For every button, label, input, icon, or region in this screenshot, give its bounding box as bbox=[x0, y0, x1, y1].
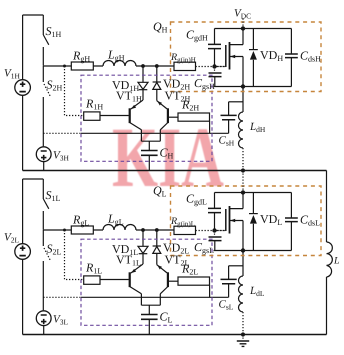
voltage source V1H bbox=[15, 80, 31, 96]
wire drain top link bbox=[215, 28, 292, 30]
wire R2 drop to rail bbox=[209, 121, 211, 133]
node dot mid rail bbox=[241, 168, 245, 172]
transistor VT1L bbox=[130, 264, 143, 305]
wire negative bias rail bbox=[43, 132, 81, 134]
wire top rail L half bbox=[23, 178, 44, 180]
wire V source top lead bbox=[22, 179, 24, 244]
wire base lead VT1 bbox=[100, 115, 129, 117]
inductor LgL bbox=[103, 225, 136, 230]
wire source bottom link bbox=[214, 86, 292, 88]
wire source rail stub bbox=[242, 57, 244, 87]
resistor Rg(in)H bbox=[174, 62, 196, 70]
wire dotted to gate bbox=[196, 66, 226, 68]
capacitor CdsL bbox=[285, 193, 298, 251]
wire negative bias rail bbox=[43, 296, 81, 298]
MOSFET QL symbol bbox=[215, 206, 244, 234]
wire driver output bar bbox=[141, 304, 160, 306]
MOSFET QH symbol bbox=[215, 42, 244, 70]
node VDC supply stub bbox=[242, 19, 244, 29]
capacitor CH bbox=[141, 141, 158, 170]
resistor R2H bbox=[178, 113, 210, 121]
switch S1H bbox=[43, 15, 49, 66]
driver IC dashed box (purple) bbox=[81, 75, 212, 161]
wire source rail stub bbox=[242, 221, 244, 251]
transistor VT1H bbox=[130, 100, 143, 141]
diode VD2H bbox=[153, 66, 161, 101]
wire V3 bottom lead bbox=[43, 326, 45, 335]
wire base lead VT1 bbox=[100, 279, 129, 281]
resistor R1H bbox=[84, 112, 100, 120]
wire bottom rail bbox=[23, 170, 327, 172]
transistor VT2L bbox=[157, 265, 178, 306]
transistor VT2H bbox=[157, 101, 178, 142]
switch S2H bbox=[43, 66, 50, 146]
voltage source V3H bbox=[36, 147, 51, 162]
capacitor CgsL bbox=[209, 231, 222, 251]
wire dotted feed to R1L bbox=[65, 230, 84, 280]
switch S1L bbox=[43, 179, 49, 230]
node dots bbox=[141, 64, 145, 68]
driver IC dashed box (purple) bbox=[81, 239, 212, 325]
voltage source V2L bbox=[15, 244, 31, 260]
wire gate drive row bbox=[43, 229, 174, 231]
wire rail below Ld dotted bbox=[242, 312, 244, 335]
wire right rail bbox=[326, 171, 328, 335]
inductor L load bbox=[327, 242, 333, 277]
capacitor CdsH bbox=[285, 29, 298, 87]
wire V source top lead bbox=[22, 15, 24, 80]
wire left rail down bbox=[22, 95, 24, 170]
wire rail above Ldh bbox=[242, 87, 244, 113]
resistor R2L bbox=[178, 277, 210, 285]
inductor LdL bbox=[239, 276, 244, 312]
wire R2 drop to rail bbox=[209, 285, 211, 297]
inductor LgH bbox=[103, 61, 136, 67]
resistor Rg(in)L bbox=[174, 226, 196, 234]
wire top rail H half bbox=[23, 14, 44, 16]
body diode VDH bbox=[249, 29, 258, 87]
wire drain rail stub bbox=[242, 193, 244, 209]
wire dotted drain feed QL bbox=[242, 171, 244, 193]
wire source bottom link bbox=[214, 250, 292, 252]
diode VD2L bbox=[153, 230, 161, 265]
diode VD1L bbox=[138, 230, 148, 264]
wire bottom rail bbox=[23, 334, 327, 336]
wire rail below Ld dotted bbox=[242, 148, 244, 171]
capacitor CsL common-source branch bbox=[221, 266, 244, 298]
resistor RgH bbox=[71, 62, 93, 70]
wire gate drive row bbox=[43, 65, 174, 67]
capacitor CgdH bbox=[208, 29, 221, 67]
resistor RgL bbox=[71, 226, 93, 234]
voltage source V3L bbox=[36, 311, 51, 326]
node dot ground junction bbox=[241, 332, 245, 336]
wire dotted to gate bbox=[196, 230, 226, 232]
wire V3 bottom lead bbox=[43, 162, 45, 171]
device QH dashed box (orange) bbox=[171, 22, 322, 92]
wire rail above Ldl bbox=[242, 251, 244, 277]
resistor R1L bbox=[84, 276, 100, 284]
switch S2L bbox=[43, 230, 50, 310]
capacitor CgdL bbox=[208, 193, 221, 231]
wire dotted feed to R1H bbox=[65, 66, 84, 116]
capacitor CL bbox=[141, 305, 158, 334]
body diode VDL bbox=[249, 193, 258, 251]
inductor LdH bbox=[239, 112, 244, 148]
device QL dashed box (orange) bbox=[171, 186, 322, 256]
wire drain rail stub bbox=[242, 29, 244, 45]
svg-text:L: L bbox=[333, 256, 340, 267]
ground bbox=[237, 335, 249, 347]
wire drain top link bbox=[215, 192, 292, 194]
capacitor CsH common-source branch bbox=[221, 102, 244, 134]
wire driver output bar bbox=[141, 140, 160, 142]
capacitor CgsH bbox=[209, 67, 222, 87]
diode VD1H bbox=[138, 66, 148, 100]
wire left rail down bbox=[22, 259, 24, 334]
node dots bbox=[141, 228, 145, 232]
